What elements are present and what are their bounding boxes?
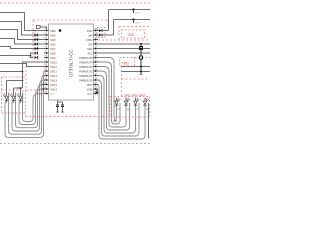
svg-text:LED1 LED2 LED3: LED1 LED2 LED3: [124, 93, 145, 97]
dashed box DAC output components: [97, 28, 105, 38]
U1 right pin 23 arrowhead: [94, 61, 96, 63]
svg-text:GT379L.TI-CC: GT379L.TI-CC: [69, 50, 74, 77]
U1 right pin 25 stub: [94, 52, 99, 54]
U1 left pin 7 arrowhead: [46, 56, 48, 58]
svg-text:PWMOUT4: PWMOUT4: [79, 60, 93, 64]
U1 right pin 26 number: [95, 46, 97, 47]
svg-text:VDD: VDD: [50, 29, 56, 33]
ESD/series component row 5: [35, 52, 38, 55]
LED DR2 anode wire: [125, 98, 127, 102]
U1 left pin 11 number: [45, 73, 47, 74]
U1 left pin 9 stub: [44, 66, 49, 68]
wire PWM LED net R4: [98, 76, 136, 134]
dashed box TBD1: [122, 30, 145, 38]
wire PWM LED net R6: [98, 85, 145, 140]
LED DR2 ref label: [127, 109, 129, 111]
svg-text:SW9: SW9: [50, 56, 56, 60]
wire LED2 anode: [13, 88, 15, 96]
dashed LED-left right edge: [25, 90, 27, 117]
U1 right pin 22 stub: [94, 66, 99, 68]
dashed LED-left left edge: [1, 77, 3, 113]
wire R-chain upper: [140, 44, 142, 47]
U1 right pin 16 arrowhead: [94, 92, 96, 94]
U1 right pin 16 stub: [94, 93, 99, 95]
U1 right pin 21 number: [95, 69, 97, 70]
wire sense net 6 from left edge: [0, 64, 44, 67]
wire PWM LED net R2: [98, 67, 126, 128]
ground symbol chip: [95, 92, 98, 95]
wire branch to cap C4: [58, 102, 63, 105]
wire GND pin to ground: [96, 89, 98, 92]
junction VLED rail: [132, 18, 134, 20]
LED DR1 ref label: [118, 109, 120, 111]
capacitor C3: [56, 105, 59, 107]
U1 right pin 23 stub: [94, 61, 99, 63]
wire LED feed drop 2: [22, 81, 24, 89]
U1 right pin 24 arrowhead: [94, 56, 96, 58]
wire sense net 7 from left edge: [0, 62, 44, 72]
dashed box LED array right: [110, 97, 150, 118]
LED DR2 emission arrows: [127, 98, 130, 101]
U1 right pin 25 arrowhead: [94, 52, 96, 54]
resistor R10: [140, 47, 143, 50]
U1 left pin 12 stub: [44, 79, 49, 81]
U1 left pin 5 number: [45, 46, 47, 47]
dashed line top-right group: [119, 26, 150, 28]
junction aux net 1: [140, 66, 142, 68]
U1 left pin 4 stub: [44, 43, 49, 45]
wire VDD rail: [109, 9, 151, 11]
U1 left pin 4 number: [45, 42, 47, 43]
wire chip to cap C3: [57, 100, 59, 105]
svg-text:SW8: SW8: [50, 51, 56, 55]
svg-text:SW12: SW12: [50, 69, 58, 73]
U1 right pin 17 number: [95, 87, 97, 88]
U1 right pin 19 arrowhead: [94, 79, 96, 81]
dashed box lower sense group: [26, 62, 45, 90]
U1 right pin 24 stub: [94, 57, 99, 59]
wire R-chain lower: [140, 59, 142, 72]
U1 right pin 21 arrowhead: [94, 70, 96, 72]
LED DR3 body: [134, 101, 138, 105]
capacitor C4: [61, 105, 64, 107]
svg-text:DAC: DAC: [87, 29, 93, 33]
wire SDA net: [98, 48, 150, 50]
ESD/series component row 6: [35, 56, 38, 59]
U1 right pin 20 arrowhead: [94, 74, 96, 76]
U1 left pin 6 stub: [44, 52, 49, 54]
U1 left pin 3 number: [45, 37, 47, 38]
U1 left pin 15 arrowhead: [46, 92, 48, 94]
LED DR3 ref label: [137, 109, 139, 111]
LED DL1 emission arrows: [3, 93, 6, 96]
svg-text:SW15: SW15: [50, 83, 58, 87]
svg-text:GND: GND: [87, 87, 93, 91]
U1 left pin 2 stub: [44, 34, 49, 36]
wire LED drive net L1: [9, 76, 45, 135]
wire cap C3 lower: [57, 107, 59, 113]
dashed box TBD2: [120, 58, 135, 67]
LED DL3 emission arrows: [17, 93, 20, 96]
U1 right pin 28 number: [95, 37, 97, 38]
dashed line right of TBD2: [135, 57, 151, 59]
U1 left pin 5 stub: [44, 48, 49, 50]
svg-text:PWMOUT5: PWMOUT5: [79, 56, 93, 60]
svg-text:SW5: SW5: [50, 38, 56, 42]
U1 left pin 8 stub: [44, 61, 49, 63]
net boundary bottom dashed line: [0, 143, 150, 145]
ESD/series component row 4: [35, 47, 38, 50]
junction sense branch: [30, 55, 32, 57]
wire cap C4 lower: [62, 107, 64, 113]
wire sense net 0 from left edge: [0, 13, 44, 31]
U1 right pin 17 arrowhead: [94, 88, 96, 90]
U1 left pin 1 number: [45, 28, 47, 29]
dashed top-right group left edge: [118, 27, 120, 41]
U1 left pin 15 number: [45, 91, 47, 92]
U1 right pin 28 stub: [94, 39, 99, 41]
wire LED drive net L3: [16, 85, 45, 128]
wire PWM LED net R1: [98, 62, 120, 124]
wire VDD flag to pin 1: [40, 27, 46, 31]
wire aux net 2: [122, 71, 151, 73]
wire INT net: [98, 43, 150, 45]
svg-text:N.C.: N.C.: [28, 55, 33, 59]
U1 left pin 8 arrowhead: [46, 61, 48, 63]
junction sense/LED feed: [22, 71, 24, 73]
U1 left pin 3 stub: [44, 39, 49, 41]
LED DR4 ref label: [146, 109, 148, 111]
dashed divider line right of chip: [94, 39, 150, 41]
U1 right pin 27 number: [95, 42, 97, 43]
wire pin to diode: [98, 30, 99, 32]
U1 left pin 8 number: [45, 60, 47, 61]
junction LED bus: [42, 84, 44, 86]
U1 right pin 24 number: [95, 55, 97, 56]
VDD flag component: [37, 25, 41, 28]
LED DR1 anode wire: [116, 98, 118, 102]
U1 right pin 20 number: [95, 73, 97, 74]
wire SCL net: [98, 52, 150, 54]
wire LED4 return: [148, 103, 150, 139]
LED DR4 body: [143, 101, 147, 105]
svg-text:SW10: SW10: [50, 60, 58, 64]
U1 right pin 29 stub: [94, 34, 99, 36]
ESD/series component row 2: [35, 38, 38, 41]
junction LED bus 2: [42, 88, 44, 90]
LED DR1 body: [115, 101, 119, 105]
VDD net stub: [133, 10, 135, 14]
U1 right pin 27 stub: [94, 43, 99, 45]
U1 left pin 10 number: [45, 69, 47, 70]
U1 left pin 15 stub: [44, 93, 49, 95]
U1 right pin 20 stub: [94, 75, 99, 77]
U1 right pin 18 number: [95, 82, 97, 83]
U1 left pin 13 number: [45, 82, 47, 83]
svg-text:SW11: SW11: [50, 65, 57, 69]
U1 left pin 1 arrowhead: [46, 29, 48, 31]
U1 right pin 29 arrowhead: [94, 34, 96, 36]
svg-text:SW6: SW6: [50, 42, 56, 46]
LED DR2 body: [124, 101, 128, 105]
U1 left pin 2 arrowhead: [46, 34, 48, 36]
LED DR1 emission arrows: [118, 98, 121, 101]
ground tick C4: [61, 111, 63, 113]
U1 left pin 2 number: [45, 33, 47, 34]
LED DL3 body: [19, 96, 23, 100]
wire LED drive net L4: [19, 89, 44, 125]
wire PWM LED net R5: [98, 80, 139, 136]
ESD/series component row 1: [35, 34, 38, 37]
dashed sense-region right edge: [107, 20, 109, 27]
U1 left pin 12 number: [45, 78, 47, 79]
U1 right pin 21 stub: [94, 70, 99, 72]
U1 right pin 18 stub: [94, 84, 99, 86]
wire diode to rail: [102, 34, 113, 36]
U1 left pin 13 arrowhead: [46, 83, 48, 85]
junction VDD rail: [132, 8, 134, 10]
svg-text:SDA: SDA: [87, 47, 93, 51]
U1 left pin 6 arrowhead: [46, 52, 48, 54]
svg-text:TBD: TBD: [122, 62, 130, 66]
U1 right pin 18 arrowhead: [94, 83, 96, 85]
U1 left pin 3 arrowhead: [46, 38, 48, 40]
U1 left pin 9 number: [45, 64, 47, 65]
wire VLED rail drop: [113, 20, 115, 36]
U1 right pin 22 number: [95, 64, 97, 65]
U1 right pin 27 arrowhead: [94, 43, 96, 45]
series diode right row 30.5: [99, 29, 102, 32]
dashed LED-left inner top: [2, 89, 24, 91]
svg-text:SW: SW: [88, 33, 93, 37]
svg-text:VDD: VDD: [135, 12, 140, 14]
LED DL2 cathode jog: [12, 100, 14, 102]
U1 left pin 7 number: [45, 55, 47, 56]
U1 left pin 10 arrowhead: [46, 70, 48, 72]
LED DL1 body: [5, 96, 9, 100]
svg-text:SW14: SW14: [50, 78, 58, 82]
wire diode to rail: [102, 30, 108, 32]
wire LED drive net L2: [12, 80, 44, 131]
U1 right pin 26 stub: [94, 48, 99, 50]
svg-text:SCL: SCL: [87, 51, 93, 55]
U1 left pin 14 arrowhead: [46, 88, 48, 90]
wire sense net 4 from left edge: [0, 47, 44, 49]
U1 left pin 11 arrowhead: [46, 74, 48, 76]
junction INT/R-chain: [140, 43, 142, 45]
wire LED top rail 2: [14, 87, 23, 89]
U1 right pin 22 arrowhead: [94, 65, 96, 67]
wire sense net 1 from left edge: [0, 22, 44, 36]
U1 right pin 30 stub: [94, 30, 99, 32]
U1 left pin 14 stub: [44, 88, 49, 90]
svg-text:SW13: SW13: [50, 74, 58, 78]
svg-text:PWMOUT1: PWMOUT1: [79, 74, 93, 78]
junction LED feed: [22, 80, 24, 82]
LED DL1 cathode jog: [5, 100, 7, 102]
U1 pin-1 marker dot: [59, 29, 62, 32]
wire branch to row 57.5: [31, 56, 34, 58]
U1 left pin 10 stub: [44, 70, 49, 72]
U1 left pin 6 number: [45, 51, 47, 52]
U1 right pin 19 number: [95, 78, 97, 79]
wire sense net 5 from left edge: [0, 53, 33, 56]
wire VLED rail: [114, 19, 151, 21]
U1 left pin 14 number: [45, 87, 47, 88]
LED DL2 emission arrows: [10, 93, 13, 96]
svg-text:N.C.: N.C.: [50, 92, 55, 96]
U1 right pin 23 number: [95, 60, 97, 61]
U1 left pin 7 stub: [44, 57, 49, 59]
LED DL3 cathode jog: [19, 100, 21, 102]
dashed vertical right group: [121, 66, 123, 96]
LED DR4 anode wire: [144, 98, 146, 102]
U1 right pin 26 arrowhead: [94, 47, 96, 49]
svg-text:SW7: SW7: [50, 47, 56, 51]
svg-text:INT: INT: [88, 42, 93, 46]
wire LED drive net L5: [23, 93, 45, 122]
LED DL2 body: [12, 96, 16, 100]
svg-text:TBD: TBD: [127, 33, 135, 37]
net boundary top dashed line: [0, 2, 150, 4]
junction SDA/R-chain: [140, 48, 142, 50]
dashed LED-left outer top: [2, 76, 26, 78]
svg-text:SW16: SW16: [50, 87, 58, 91]
resistor R11: [140, 56, 143, 59]
wire VDD rail drop: [108, 10, 110, 31]
junction aux net 2: [140, 71, 142, 73]
wire LED drive net L0: [5, 71, 44, 137]
U1 left pin 13 stub: [44, 84, 49, 86]
wire LED3 anode: [20, 88, 22, 96]
U1 right pin 29 number: [95, 33, 97, 34]
svg-text:PWMOUT3: PWMOUT3: [79, 65, 93, 69]
svg-text:PWMOUT0: PWMOUT0: [79, 78, 93, 82]
svg-text:RST: RST: [87, 83, 93, 87]
wire R-chain middle: [140, 50, 142, 57]
VLED net stub: [133, 20, 135, 24]
wire LED1 anode: [6, 81, 8, 97]
U1 left pin 11 stub: [44, 75, 49, 77]
dashed sense-region top edge: [33, 19, 108, 21]
LED DR4 emission arrows: [146, 98, 149, 101]
wire pin to diode: [98, 34, 99, 36]
terminator tick: [140, 73, 143, 75]
series diode right row 35.0: [99, 34, 102, 37]
svg-text:VLED: VLED: [135, 22, 141, 24]
dashed LED-left bottom: [2, 112, 26, 114]
U1 right pin 30 number: [95, 28, 97, 29]
U1 left pin 9 arrowhead: [46, 65, 48, 67]
wire PWM LED net R3: [98, 71, 130, 130]
wire sense net 3 from left edge: [0, 39, 44, 45]
svg-text:PWMOUT2: PWMOUT2: [79, 69, 93, 73]
dashed line mid-right: [122, 78, 151, 80]
U1 right pin 19 stub: [94, 79, 99, 81]
U1 right pin 25 number: [95, 51, 97, 52]
wire aux net 1: [122, 66, 151, 68]
U1 right pin 30 arrowhead: [94, 29, 96, 31]
svg-text:CTRL: CTRL: [86, 38, 93, 42]
wire LED feed drop: [22, 72, 24, 81]
ESD/series component row 3: [35, 43, 38, 46]
U1 left pin 12 arrowhead: [46, 79, 48, 81]
U1 right pin 17 stub: [94, 88, 99, 90]
U1 left pin 4 arrowhead: [46, 43, 48, 45]
U1 right pin 16 number: [95, 91, 97, 92]
dashed LED-left inner right: [22, 90, 24, 104]
svg-text:N.C.: N.C.: [36, 92, 41, 96]
wire sense net 2 from left edge: [0, 30, 44, 40]
U1 right pin 28 arrowhead: [94, 38, 96, 40]
dashed sense-region left edge: [32, 20, 34, 58]
wire LED top rail 1: [7, 80, 23, 82]
dashed line bottom between LED groups: [26, 116, 111, 118]
junction LED3 feed: [20, 87, 22, 89]
wire R-chain tail: [140, 72, 142, 75]
LED DR3 emission arrows: [137, 98, 140, 101]
LED DR3 anode wire: [135, 98, 137, 102]
svg-text:N.C.: N.C.: [87, 92, 92, 96]
IC U1 GT379L touch controller body: [49, 24, 94, 100]
U1 left pin 5 arrowhead: [46, 47, 48, 49]
ground tick C3: [56, 111, 58, 113]
U1 left pin 1 stub: [44, 30, 49, 32]
wire PWM LED net R0: [98, 58, 118, 122]
svg-text:SW4: SW4: [50, 33, 56, 37]
